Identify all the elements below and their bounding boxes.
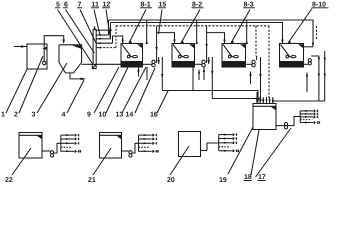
vessel2 hopper bbox=[59, 45, 85, 79]
leader 5 bbox=[58, 10, 93, 64]
collector outlet pump bbox=[276, 117, 300, 129]
svg-text:20: 20 bbox=[167, 177, 175, 184]
cell4 bbox=[280, 44, 304, 68]
svg-text:16: 16 bbox=[150, 112, 158, 119]
froth riser cell3 bbox=[246, 20, 248, 44]
svg-text:14: 14 bbox=[126, 112, 134, 119]
gap2 pump tail line bbox=[203, 67, 205, 80]
legend B bbox=[139, 134, 152, 152]
pump3 bbox=[246, 60, 256, 67]
pump2 bbox=[195, 60, 206, 67]
svg-text:4: 4 bbox=[62, 112, 66, 119]
dashed drop at 269 bbox=[268, 26, 270, 100]
vessel2 outlet arrow bbox=[81, 78, 87, 81]
pump2 discharge to cell3 bbox=[207, 26, 225, 63]
froth riser cell2 bbox=[196, 20, 198, 44]
dashed drop to pump3 bbox=[255, 26, 257, 56]
gap2 downcomers bbox=[208, 57, 214, 99]
pump1 discharge to cell2 bbox=[157, 26, 175, 63]
dashed drop right of pump4 bbox=[316, 26, 318, 40]
leader 8-1 bbox=[129, 10, 146, 44]
leader 8-3 bbox=[231, 10, 250, 44]
column top arrow bbox=[93, 26, 95, 30]
leader 10 bbox=[106, 67, 128, 113]
pump1 bbox=[143, 60, 156, 67]
legend bottom-right bbox=[300, 110, 313, 124]
leader 4 bbox=[67, 80, 84, 113]
feed line into cell1 bbox=[113, 36, 123, 44]
bus1 bbox=[162, 91, 258, 103]
cell1 bbox=[121, 44, 143, 68]
labels top bbox=[56, 2, 326, 9]
svg-text:17: 17 bbox=[258, 174, 266, 181]
leader 7 bbox=[80, 10, 96, 44]
leader 8-10 bbox=[288, 9, 312, 44]
gap1 up arrow below cell1 band bbox=[137, 67, 139, 76]
leader 1 bbox=[6, 68, 28, 113]
leader 19 bbox=[228, 127, 253, 174]
froth riser cell1 bbox=[146, 20, 148, 44]
bus2 bbox=[212, 99, 260, 103]
gap3 up arrow below bbox=[249, 72, 251, 85]
bottom box B bbox=[100, 133, 139, 159]
manifold rows with left arrows bbox=[96, 34, 116, 49]
wire square to cell1 bbox=[96, 63, 121, 65]
collector pins bbox=[256, 92, 274, 103]
pump3 discharge to rail2 bbox=[256, 56, 258, 60]
leader 11 bbox=[94, 10, 100, 36]
arrow into vessel2 from duct bbox=[62, 40, 65, 45]
rail1 solid top bbox=[109, 20, 314, 47]
leader 16 bbox=[157, 91, 168, 113]
rail1 end arrow into cell4 launder bbox=[312, 43, 314, 47]
bus3 bbox=[261, 100, 264, 103]
duct box1 to vessel2 bbox=[44, 36, 64, 62]
labels bottom bbox=[5, 174, 266, 184]
collector box bbox=[253, 104, 276, 130]
tiny legend texts bbox=[75, 110, 321, 153]
rail3 dashed bbox=[116, 25, 269, 27]
arrow into box1 interior bbox=[42, 46, 47, 50]
leader 2 bbox=[19, 56, 43, 113]
leader 9 bbox=[94, 67, 119, 113]
leader 3 bbox=[37, 63, 67, 113]
svg-text:19: 19 bbox=[219, 177, 227, 184]
pump4 discharge connector bbox=[311, 55, 319, 57]
column bottom square bbox=[92, 64, 96, 68]
gap2 up arrow below bbox=[198, 70, 200, 81]
leader 8-2 bbox=[181, 10, 200, 44]
svg-text:2: 2 bbox=[14, 112, 18, 119]
gap3 downcomers bbox=[259, 57, 261, 100]
cell2 bbox=[172, 44, 195, 68]
svg-text:22: 22 bbox=[5, 177, 13, 184]
feed arrow into box1 bbox=[14, 45, 27, 48]
cell4 up arrow below bbox=[306, 73, 308, 93]
legend C bbox=[219, 134, 232, 152]
cell4 launder line bbox=[304, 46, 314, 48]
gap1 pump tail line bbox=[146, 67, 148, 80]
leader 18 bbox=[251, 130, 259, 175]
leader 12 bbox=[106, 10, 111, 40]
column bbox=[93, 30, 96, 65]
leader 17 bbox=[256, 128, 292, 177]
cell2 underflow to bus1 bbox=[192, 67, 194, 91]
bottom box A bbox=[19, 133, 61, 159]
leader 21 bbox=[93, 148, 111, 175]
bus4 from right to collector bbox=[273, 101, 325, 103]
underlines 18 17 bbox=[244, 180, 252, 182]
leader 13 bbox=[122, 67, 146, 113]
labels mid row bbox=[1, 112, 158, 119]
dashed riser to dashed rail bbox=[115, 26, 117, 48]
rail risers bbox=[108, 20, 110, 35]
svg-text:9: 9 bbox=[87, 112, 91, 119]
svg-text:3: 3 bbox=[32, 112, 36, 119]
box1 vessel left bbox=[27, 44, 47, 69]
leader 6 bbox=[66, 10, 95, 54]
pump4 bbox=[304, 59, 312, 65]
svg-text:13: 13 bbox=[116, 112, 124, 119]
cell3 bbox=[222, 44, 246, 68]
cell4 right downcomers bbox=[318, 51, 326, 101]
svg-text:1: 1 bbox=[1, 112, 5, 119]
leader 20 bbox=[170, 146, 189, 175]
gap1 downcomers bbox=[158, 57, 164, 91]
svg-text:10: 10 bbox=[99, 112, 107, 119]
svg-text:18: 18 bbox=[244, 174, 252, 181]
rail2 solid feeds cell4 bbox=[111, 23, 283, 44]
leader 14 bbox=[135, 68, 155, 113]
leader 22 bbox=[12, 148, 31, 175]
svg-text:21: 21 bbox=[88, 177, 96, 184]
column top line bbox=[96, 29, 112, 31]
bottom box C bbox=[179, 132, 219, 157]
legend A bbox=[61, 134, 74, 152]
leader 15 bbox=[159, 10, 163, 35]
